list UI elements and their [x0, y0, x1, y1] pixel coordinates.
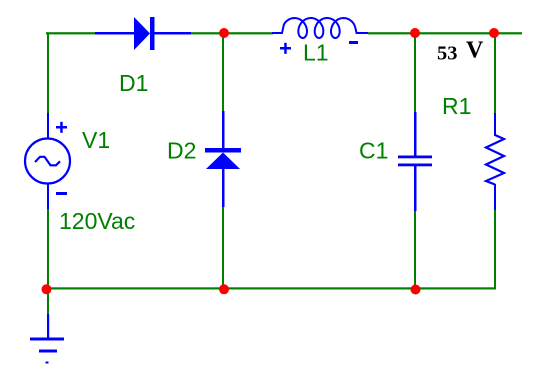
- V1 circle body: [25, 139, 70, 184]
- junction dot bottom C1: [411, 285, 421, 295]
- wire top horizontal segment 1: [46, 32, 95, 34]
- D2 pin top (cathode): [222, 111, 225, 148]
- V1 plus mark: [56, 126, 67, 129]
- R1 pin top: [494, 113, 496, 136]
- D2 cathode bar: [205, 148, 241, 153]
- wire top horizontal segment 3: [368, 32, 522, 34]
- ground bar 1: [30, 338, 64, 341]
- C1 pin top: [414, 112, 417, 157]
- D2 pin bottom (anode): [222, 169, 225, 207]
- svg-text:120Vac: 120Vac: [59, 208, 135, 234]
- D1 pin right (cathode): [154, 32, 191, 35]
- svg-text:R1: R1: [442, 93, 471, 119]
- ground bar 2: [39, 350, 57, 353]
- diode D2: [205, 111, 241, 207]
- C1 pin bottom: [414, 166, 417, 211]
- V1 pin top: [47, 113, 49, 139]
- wire top-left vertical: [47, 33, 49, 113]
- C1 bottom plate: [398, 164, 432, 167]
- junction dot top R1: [489, 28, 499, 38]
- ground bar 3: [46, 362, 49, 364]
- wire R1 branch top: [494, 33, 496, 113]
- junction dot bottom D2: [219, 284, 229, 294]
- V1 minus mark: [56, 192, 67, 195]
- L1 plus mark: [280, 47, 291, 50]
- wire D2 branch bottom: [222, 207, 224, 289]
- R1 pin bottom: [494, 184, 496, 210]
- wire C1 branch top: [414, 33, 416, 112]
- C1 top plate: [398, 156, 432, 159]
- svg-text:V1: V1: [82, 127, 110, 153]
- capacitor C1: [398, 112, 432, 211]
- svg-text:D1: D1: [119, 70, 148, 96]
- wire V1 branch bottom: [47, 208, 49, 289]
- wire R1 branch bottom: [494, 210, 496, 289]
- svg-text:D2: D2: [167, 138, 196, 164]
- V1 sine symbol: [35, 157, 60, 166]
- junction dot bottom V1: [42, 284, 52, 294]
- L1 coil body: [272, 18, 368, 38]
- wire top horizontal segment 2: [191, 32, 273, 34]
- V1 pin bottom: [47, 183, 49, 209]
- wire D2 branch top: [222, 33, 224, 111]
- junction dot top D2: [219, 28, 229, 38]
- ground: [30, 314, 64, 364]
- L1 minus mark: [349, 41, 358, 44]
- svg-text:L1: L1: [303, 40, 329, 66]
- D2 triangle: [206, 153, 240, 170]
- diode D1: [95, 17, 191, 50]
- D1 pin left (anode): [95, 32, 134, 35]
- svg-text:53V: 53V: [437, 38, 484, 65]
- D1 triangle: [134, 17, 150, 50]
- wire ground stub: [47, 289, 49, 314]
- source V1: [25, 113, 70, 209]
- junction dot top C1: [410, 28, 420, 38]
- ground pin: [47, 314, 49, 339]
- wire C1 branch bottom: [414, 210, 416, 289]
- svg-text:C1: C1: [359, 138, 388, 164]
- resistor R1: [486, 113, 504, 210]
- R1 zigzag body: [486, 135, 504, 185]
- inductor L1: [272, 18, 368, 54]
- D1 cathode bar: [150, 17, 155, 50]
- wire bottom horizontal: [45, 287, 496, 289]
